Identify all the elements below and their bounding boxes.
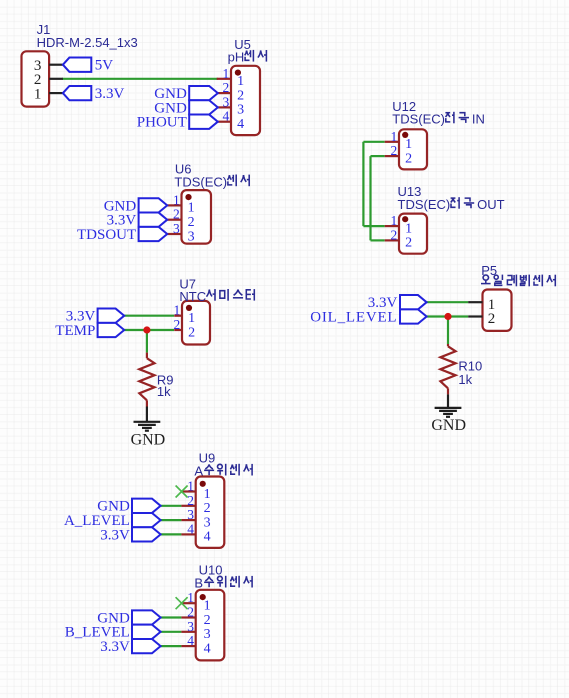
wire 3.3V to U7 pin1: [124, 315, 174, 317]
U9 pin 4: [181, 533, 195, 535]
wire to U9 pin 4: [161, 533, 182, 535]
U5 pin 2: [217, 92, 231, 94]
svg-text:NTC: NTC: [179, 289, 206, 304]
svg-text:2: 2: [405, 236, 412, 251]
svg-text:2: 2: [488, 311, 496, 327]
svg-text:3: 3: [237, 103, 244, 118]
svg-text:HDR-M-2.54_1x3: HDR-M-2.54_1x3: [37, 35, 138, 50]
net flag GND at U10 pin2: [132, 610, 161, 624]
no-connect X at U10 pin1: [176, 597, 188, 609]
svg-text:1: 1: [188, 201, 195, 216]
U5 pin1 dot: [235, 70, 241, 76]
net flag 3.3V at U7 pin1: [98, 309, 125, 323]
net flag 5V: [63, 58, 91, 72]
svg-text:2: 2: [173, 207, 180, 222]
U12 pin 1: [385, 141, 399, 143]
U13 pin 1: [385, 225, 399, 227]
U10 pin 2: [181, 616, 195, 618]
svg-text:1: 1: [391, 129, 398, 144]
svg-text:GND: GND: [131, 431, 166, 448]
net flag 3.3V at P5 pin1: [400, 295, 427, 309]
wire 3.3V to P5 pin1: [427, 301, 469, 303]
net flag TEMP at U7 pin2: [98, 323, 125, 337]
U12 pin1 dot: [402, 132, 408, 138]
svg-text:1k: 1k: [157, 384, 171, 399]
svg-text:3: 3: [187, 507, 194, 522]
svg-text:2: 2: [204, 501, 211, 516]
net flag A_LEVEL at U9 pin3: [132, 513, 161, 527]
svg-text:pH: pH: [228, 50, 245, 65]
svg-text:1: 1: [405, 221, 412, 236]
svg-text:OIL_LEVEL: OIL_LEVEL: [310, 309, 397, 325]
svg-text:3: 3: [187, 619, 194, 634]
U9 pin 3: [181, 519, 195, 521]
wire junction to R9: [146, 330, 148, 353]
wire OIL_LEVEL to P5 pin2: [427, 315, 469, 317]
U5 pin 3: [217, 106, 231, 108]
wire to U10 pin 4: [161, 645, 182, 647]
U10 pin 3: [181, 631, 195, 633]
svg-text:2: 2: [237, 88, 244, 103]
U9 pin1 dot: [200, 481, 206, 487]
resistor R10: [447, 344, 449, 346]
U6 pin 1: [167, 204, 181, 206]
wire net 3.3V J1 pin2 to U5 pin1: [62, 78, 218, 80]
svg-text:2: 2: [187, 493, 194, 508]
net flag GND at U9 pin2: [132, 499, 161, 513]
svg-text:1: 1: [223, 66, 230, 81]
wire to U9 pin 2: [161, 505, 182, 507]
svg-text:PHOUT: PHOUT: [137, 115, 187, 131]
U5 pin 1: [217, 78, 231, 80]
wire to U9 pin 3: [161, 519, 182, 521]
svg-text:A: A: [194, 464, 203, 479]
svg-text:TDS(EC): TDS(EC): [398, 197, 451, 212]
svg-text:1: 1: [174, 303, 181, 318]
svg-text:1: 1: [237, 74, 244, 89]
U10 pin 1: [181, 602, 195, 604]
svg-text:2: 2: [223, 80, 230, 95]
U7 pin 1: [174, 315, 182, 317]
wire to U10 pin 2: [161, 616, 182, 618]
ground symbol GND below R9: [146, 407, 148, 422]
net flag 3.3V at U9 pin4: [132, 527, 161, 541]
svg-text:1: 1: [187, 590, 194, 605]
TDS(EC) electrode OUT U13: [399, 214, 427, 254]
resistor R9: [146, 352, 148, 354]
net flag GND at U5 pin2: [189, 86, 218, 100]
water level sensor A U9: [196, 477, 225, 548]
svg-text:4: 4: [237, 117, 244, 132]
U10 pin1 dot: [200, 594, 206, 600]
net flag B_LEVEL at U10 pin3: [132, 625, 161, 639]
svg-text:3.3V: 3.3V: [100, 639, 130, 655]
J1 pin 2: [49, 78, 63, 80]
svg-text:1: 1: [391, 213, 398, 228]
net flag GND at U5 pin3: [189, 100, 218, 114]
svg-text:1: 1: [173, 192, 180, 207]
svg-text:1k: 1k: [458, 372, 472, 387]
net flag PHOUT at U5 pin4: [189, 115, 218, 129]
net flag 3.3V at U6 pin2: [139, 213, 168, 227]
U7 pin 2: [174, 329, 182, 331]
J1 pin 1: [49, 92, 63, 94]
svg-text:3.3V: 3.3V: [95, 86, 125, 102]
svg-text:3: 3: [204, 515, 211, 530]
P5 name oil level sensor: [481, 275, 491, 284]
svg-text:2: 2: [187, 605, 194, 620]
svg-text:5V: 5V: [95, 57, 114, 73]
U6 pin 2: [167, 219, 181, 221]
svg-text:2: 2: [188, 215, 195, 230]
U12 pin 2: [385, 155, 399, 157]
svg-text:1: 1: [405, 137, 412, 152]
svg-text:2: 2: [391, 227, 398, 242]
svg-text:2: 2: [204, 613, 211, 628]
net flag GND at U6 pin1: [139, 198, 168, 212]
svg-text:TEMP: TEMP: [55, 323, 95, 339]
ground symbol GND below R10: [447, 394, 449, 408]
wire to U10 pin 3: [161, 631, 182, 633]
svg-text:1: 1: [188, 311, 195, 326]
svg-text:4: 4: [187, 521, 194, 536]
net flag 3.3V at J1 pin1: [63, 86, 91, 100]
svg-text:2: 2: [405, 151, 412, 166]
wire TEMP to U7 pin2: [124, 329, 174, 331]
svg-text:TDS(EC): TDS(EC): [174, 174, 227, 189]
svg-text:3: 3: [188, 229, 195, 244]
svg-text:4: 4: [187, 633, 194, 648]
U5 pin 4: [217, 121, 231, 123]
svg-text:3: 3: [223, 94, 230, 109]
NTC thermistor U7: [182, 301, 210, 345]
svg-text:1: 1: [204, 487, 211, 502]
net flag 3.3V at U10 pin4: [132, 639, 161, 653]
U6 pin 3: [167, 233, 181, 235]
P5 pin 1: [468, 301, 482, 303]
svg-text:TDS(EC): TDS(EC): [392, 112, 445, 127]
svg-text:4: 4: [204, 641, 211, 656]
J1 pin 3: [49, 64, 63, 66]
net flag OIL_LEVEL at P5 pin2: [400, 309, 427, 323]
U6 pin1 dot: [185, 194, 191, 200]
svg-text:1: 1: [204, 599, 211, 614]
pH sensor U5: [231, 66, 260, 135]
svg-text:4: 4: [204, 530, 211, 545]
svg-text:3: 3: [204, 627, 211, 642]
svg-text:2: 2: [174, 317, 181, 332]
svg-text:2: 2: [391, 143, 398, 158]
wire U12 pin1 to U13 pin1: [363, 141, 384, 143]
svg-text:TDSOUT: TDSOUT: [77, 227, 136, 243]
net flag TDSOUT at U6 pin3: [139, 227, 168, 241]
svg-text:B: B: [194, 576, 203, 591]
wire U12 pin2 to U13 pin2: [371, 155, 385, 157]
U9 pin 2: [181, 505, 195, 507]
svg-text:3: 3: [173, 221, 180, 236]
U10 pin 4: [181, 645, 195, 647]
U9 pin 1: [181, 490, 195, 492]
U13 pin1 dot: [402, 216, 408, 222]
junction at U7 pin2: [143, 326, 150, 333]
water level sensor B U10: [196, 590, 225, 661]
svg-text:3.3V: 3.3V: [100, 527, 130, 543]
oil level sensor P5: [483, 290, 512, 331]
TDS(EC) electrode IN U12: [399, 129, 427, 169]
junction at P5 pin2: [444, 313, 451, 320]
svg-text:2: 2: [188, 325, 195, 340]
TDS(EC) sensor U6: [182, 190, 212, 244]
svg-text:1: 1: [34, 86, 42, 102]
svg-text:IN: IN: [472, 112, 485, 127]
svg-text:GND: GND: [431, 417, 466, 434]
svg-text:1: 1: [187, 479, 194, 494]
connector J1: [22, 51, 50, 106]
U7 pin1 dot: [186, 305, 192, 311]
svg-text:OUT: OUT: [477, 197, 505, 212]
U13 pin 2: [385, 239, 399, 241]
svg-text:4: 4: [223, 109, 230, 124]
P5 pin 2: [468, 315, 482, 317]
wire junction to R10: [447, 317, 449, 345]
no-connect X at U9 pin1: [176, 486, 188, 498]
